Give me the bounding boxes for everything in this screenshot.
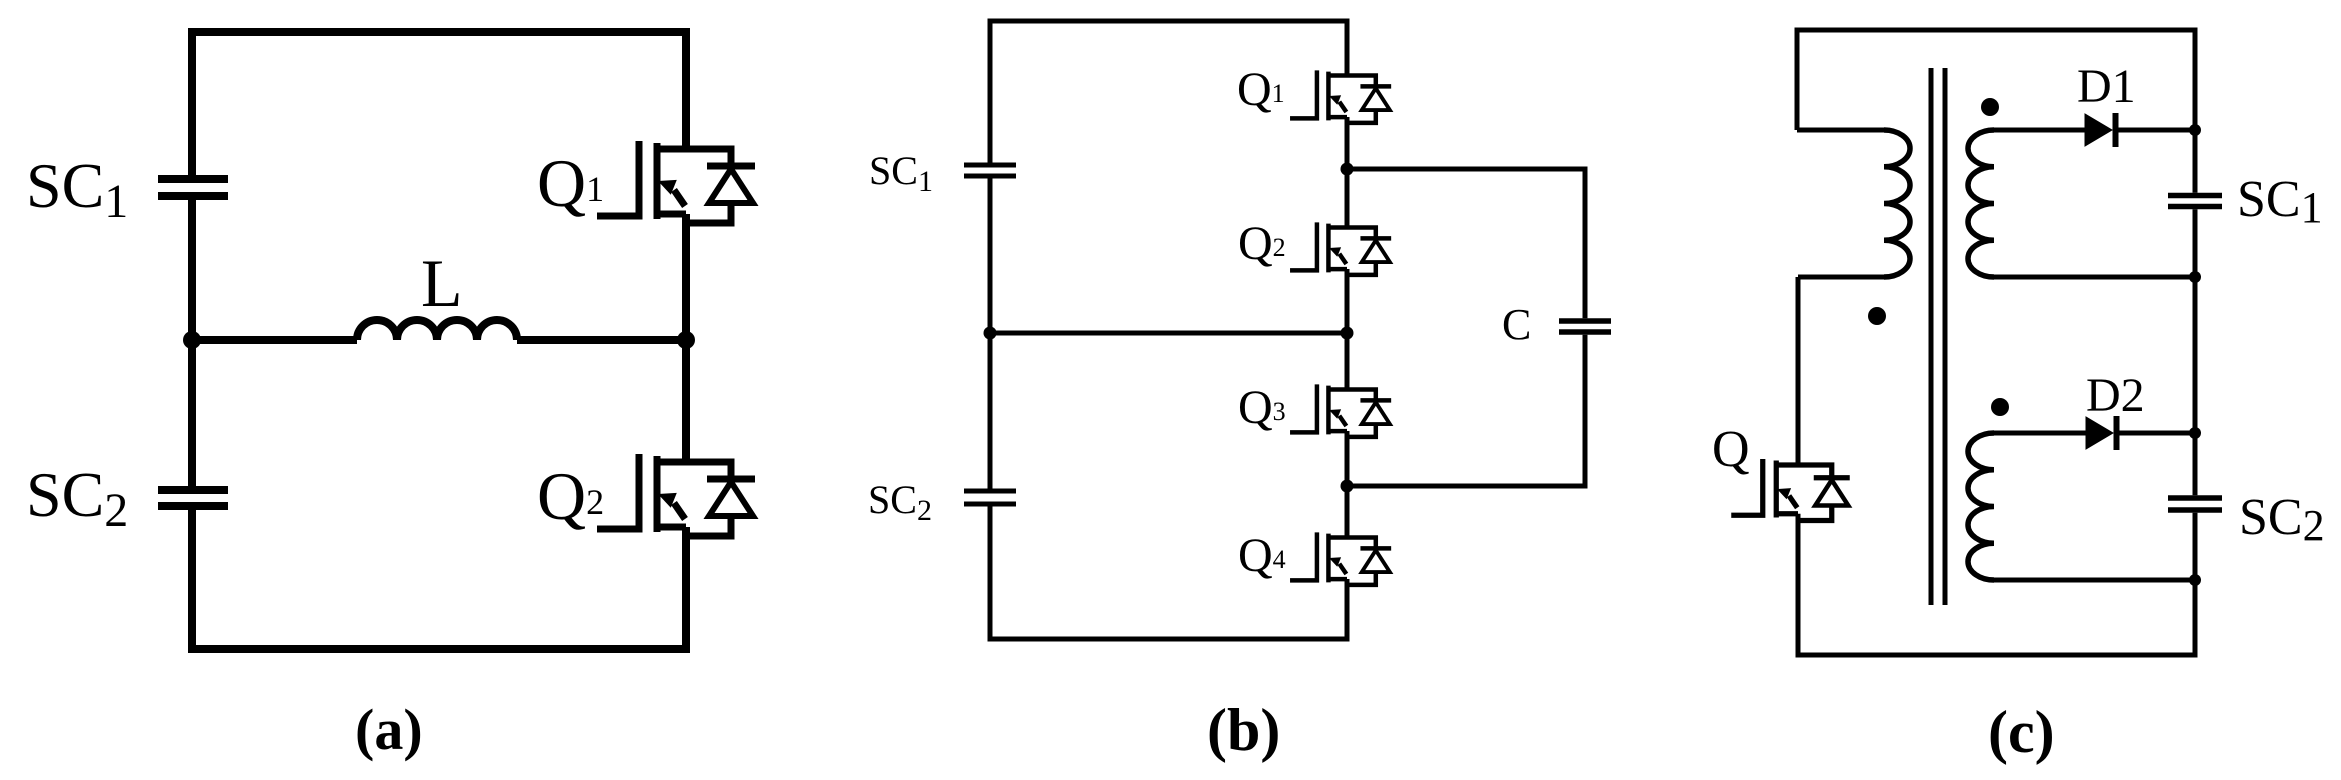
- svg-text:(a): (a): [355, 697, 423, 762]
- wire: (a) middle rail right of L: [517, 336, 686, 344]
- svg-text:(c): (c): [1988, 699, 2055, 765]
- svg-text:SC2: SC2: [868, 477, 932, 527]
- transistor Q1 (b) MOSFET with body diode: [1290, 70, 1391, 122]
- diode D2: [2086, 416, 2117, 450]
- node: (b) left mid junction: [984, 327, 997, 340]
- wire: (a) middle rail left of L: [192, 336, 357, 344]
- wire: (c) bottom rail: [1796, 653, 2196, 658]
- wire: (b) left rail segments (with SC1,SC2 gaps): [988, 19, 993, 642]
- svg-text:Q2: Q2: [1238, 217, 1286, 270]
- svg-text:D2: D2: [2086, 369, 2145, 422]
- diode D1: [2085, 113, 2116, 147]
- transistor Q2 (a) MOSFET with body diode: [597, 454, 755, 536]
- wire: (c) primary bottom jog + left rail to Q and bottom: [1798, 277, 1884, 658]
- capacitor SC1 (c): [2168, 196, 2222, 207]
- svg-text:Q1: Q1: [537, 145, 604, 221]
- node: (a) right mid junction: [677, 331, 695, 349]
- polarity dot: secondary 1: [1981, 98, 1999, 116]
- svg-text:Q: Q: [1712, 421, 1750, 478]
- transistor Q2 (b) MOSFET with body diode: [1290, 222, 1391, 274]
- node: (b) right mid junction: [1341, 327, 1354, 340]
- node: (c) D1 cathode junction: [2189, 124, 2201, 136]
- svg-text:SC1: SC1: [26, 150, 128, 228]
- capacitor SC2 (b): [964, 491, 1016, 504]
- capacitor SC2 (c): [2168, 498, 2222, 510]
- wire: (b) middle rail: [990, 331, 1347, 336]
- capacitor SC1 (b): [964, 165, 1016, 176]
- wire: (b) branch to capacitor C: [1347, 169, 1585, 486]
- wire: (a) right rail segments (through Q1,Q2): [682, 28, 690, 653]
- node: (c) D2 cathode junction: [2189, 427, 2201, 439]
- svg-text:SC1: SC1: [869, 148, 933, 198]
- node: (c) secondary2 bottom junction: [2189, 574, 2201, 586]
- transistor Q4 (b) MOSFET with body diode: [1290, 532, 1391, 584]
- wire: (c) right rail segments (with SC1,SC2 gaps): [2193, 28, 2198, 658]
- polarity dot: primary: [1868, 307, 1886, 325]
- transformer secondary winding 1: [1968, 130, 1994, 277]
- wire: (a) left rail segments (with SC1,SC2 gaps): [188, 28, 196, 653]
- wire: (a) top rail: [188, 28, 686, 36]
- transformer primary winding: [1884, 130, 1910, 277]
- svg-text:SC2: SC2: [26, 459, 128, 537]
- polarity dot: secondary 2: [1991, 398, 2009, 416]
- transformer secondary winding 2: [1968, 433, 1994, 580]
- wire: (c) bottom secondary terminals: [1994, 433, 2195, 580]
- svg-text:C: C: [1502, 300, 1531, 349]
- node: (c) secondary1 bottom junction: [2189, 271, 2201, 283]
- wire: (a) bottom rail: [188, 645, 686, 653]
- svg-text:L: L: [421, 245, 463, 321]
- node: (a) left mid junction: [183, 331, 201, 349]
- node: (b) right rail Q1-Q2 junction: [1341, 163, 1354, 176]
- wire: (b) bottom rail: [988, 637, 1348, 642]
- wire: (b) top rail: [988, 19, 1348, 24]
- transistor Q (c) MOSFET with body diode: [1731, 459, 1850, 521]
- wire: (c) left rail upper + jog to primary: [1797, 28, 1884, 131]
- svg-text:SC1: SC1: [2237, 171, 2323, 232]
- transformer core: [1931, 68, 1945, 605]
- svg-text:D1: D1: [2077, 60, 2136, 113]
- wire: (b) right rail segments (through Q1..Q4): [1345, 19, 1350, 642]
- node: (b) right rail Q3-Q4 junction: [1341, 480, 1354, 493]
- capacitor SC1 (a): [158, 179, 228, 196]
- transistor Q3 (b) MOSFET with body diode: [1290, 384, 1391, 436]
- wire: (c) top rail: [1795, 28, 2196, 33]
- svg-text:Q3: Q3: [1238, 381, 1286, 434]
- svg-text:Q2: Q2: [537, 458, 604, 534]
- transistor Q1 (a) MOSFET with body diode: [597, 141, 755, 223]
- inductor L: [357, 320, 517, 340]
- capacitor SC2 (a): [158, 490, 228, 506]
- svg-text:SC2: SC2: [2239, 489, 2325, 550]
- wire: (c) top secondary terminals: [1994, 130, 2195, 277]
- svg-text:(b): (b): [1207, 697, 1280, 763]
- svg-text:Q4: Q4: [1238, 529, 1286, 582]
- svg-text:Q1: Q1: [1237, 63, 1285, 116]
- capacitor C: [1559, 321, 1611, 332]
